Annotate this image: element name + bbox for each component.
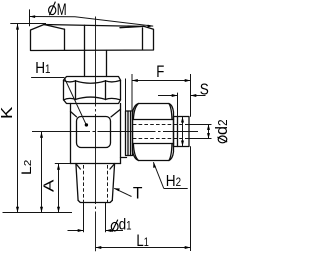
svg-text:H2: H2 [166, 173, 181, 190]
svg-text:d1: d1 [119, 216, 132, 233]
svg-text:L2: L2 [20, 160, 35, 175]
svg-text:K: K [0, 106, 16, 119]
svg-text:H1: H1 [35, 60, 50, 77]
svg-text:F: F [156, 63, 164, 82]
svg-text:T: T [133, 184, 143, 202]
svg-text:A: A [41, 179, 58, 192]
svg-text:S: S [200, 81, 209, 98]
svg-text:M: M [57, 1, 67, 19]
